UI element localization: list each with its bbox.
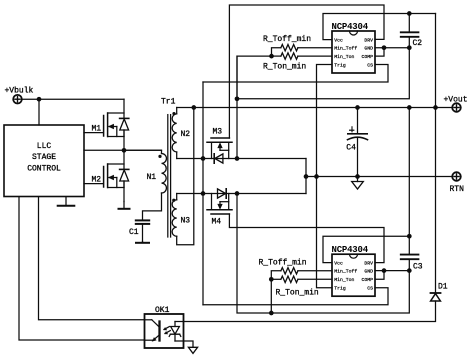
- transformer Tr1 core: [167, 115, 169, 237]
- node upper R junction: [269, 54, 274, 59]
- wire +Vbulk rail: [22, 98, 124, 100]
- node C4 bottom / RTN: [355, 174, 360, 179]
- svg-text:COMP: COMP: [361, 54, 373, 60]
- svg-text:STAGE: STAGE: [32, 153, 56, 162]
- svg-text:Tr1: Tr1: [161, 98, 176, 107]
- diode D1: [431, 293, 441, 301]
- capacitor C3: [401, 255, 419, 271]
- wire N3 bottom lead: [177, 108, 194, 245]
- svg-text:Trig: Trig: [334, 286, 346, 292]
- wire upper COMP to GND: [375, 48, 384, 56]
- ground (OK1): [188, 347, 197, 353]
- wire lower GND net: [375, 270, 409, 272]
- wire D1 to feedback line: [184, 301, 436, 322]
- svg-text:NCP4304: NCP4304: [332, 22, 369, 32]
- wire upper GND net: [375, 47, 409, 49]
- resistor R_Toff_min (lower): [271, 268, 332, 280]
- node C2 bottom / GND: [407, 45, 412, 50]
- ground (LLC box): [58, 197, 75, 206]
- op-amp U3 NCP4304 (lower): [332, 245, 376, 296]
- wire LLC emitter sense: [19, 197, 145, 340]
- wire RTN rail: [306, 176, 452, 178]
- node Vbulk junction: [37, 97, 42, 102]
- svg-text:M4: M4: [212, 218, 222, 227]
- wire N1 top lead: [124, 150, 162, 153]
- resistor R_Ton_min (lower): [271, 276, 332, 282]
- node Vcc rail / +Vout: [433, 105, 438, 110]
- wire upper Vcc rail: [323, 14, 436, 40]
- svg-text:M3: M3: [213, 128, 223, 137]
- wire upper CS loop: [203, 65, 388, 83]
- node lower COMP tie: [382, 268, 387, 273]
- node RTN left junction: [304, 174, 309, 179]
- svg-text:DRV: DRV: [364, 260, 373, 266]
- svg-text:N2: N2: [181, 130, 191, 139]
- svg-text:NCP4304: NCP4304: [332, 245, 369, 255]
- svg-text:Min_Toff: Min_Toff: [334, 46, 357, 52]
- svg-text:CS: CS: [367, 286, 373, 292]
- svg-text:GND: GND: [364, 269, 373, 275]
- svg-text:D1: D1: [438, 283, 448, 292]
- wire +Vout rail: [177, 107, 453, 109]
- wire N3 top lead: [176, 194, 178, 200]
- wire M4 row to RTN: [305, 177, 307, 194]
- resistor R_Toff_min (upper): [272, 45, 333, 57]
- svg-text:Min_Toff: Min_Toff: [334, 269, 357, 275]
- svg-text:Vcc: Vcc: [334, 37, 343, 43]
- svg-text:COMP: COMP: [361, 277, 373, 283]
- terminal +Vout: [444, 96, 468, 112]
- transistor M2: [84, 164, 129, 188]
- winding N3: [172, 199, 177, 237]
- wire lower CS loop: [203, 288, 388, 305]
- wire M4 row (N3 return): [177, 193, 306, 195]
- node M4 source: [235, 191, 240, 196]
- ground (M2 source): [119, 202, 130, 209]
- svg-text:GND: GND: [364, 46, 373, 52]
- wire LLC lower output: [39, 197, 145, 320]
- node upper COMP tie: [382, 45, 387, 50]
- wire Vbulk to LLC box: [38, 99, 40, 125]
- wire midpoint row: [84, 149, 162, 151]
- svg-text:R_Toff_min: R_Toff_min: [263, 35, 311, 44]
- svg-text:Vcc: Vcc: [334, 260, 343, 266]
- node upper GND/M3 source: [235, 96, 240, 101]
- svg-text:R_Ton_min: R_Ton_min: [263, 63, 306, 72]
- wire lower COMP to GND: [375, 271, 384, 280]
- terminal +Vbulk: [5, 87, 34, 104]
- winding N1: [158, 154, 166, 194]
- wire +Vout to D1: [435, 108, 437, 294]
- terminal RTN: [450, 172, 465, 194]
- ground (RTN): [352, 177, 364, 190]
- svg-text:C2: C2: [413, 39, 423, 48]
- svg-text:Min_Ton: Min_Ton: [334, 54, 354, 60]
- svg-text:Min_Ton: Min_Ton: [334, 277, 354, 283]
- wire M1 source to midpoint: [123, 130, 125, 150]
- svg-text:C4: C4: [346, 144, 356, 153]
- ground (C1): [136, 242, 149, 243]
- node C3 bottom / GND: [407, 268, 412, 273]
- wire M4 gate to lower DRV: [229, 214, 384, 263]
- transistor M1: [84, 113, 129, 137]
- svg-text:LLC: LLC: [37, 142, 52, 151]
- svg-text:N3: N3: [181, 217, 191, 226]
- wire Vcc rail to +Vout: [435, 14, 437, 108]
- wire OK1 LED cathode to ground: [175, 341, 193, 347]
- node bridge midpoint: [122, 148, 127, 153]
- svg-text:CS: CS: [367, 62, 373, 68]
- wire M1 drain: [123, 99, 125, 118]
- svg-text:+Vbulk: +Vbulk: [5, 87, 34, 96]
- node C4 top: [355, 105, 360, 110]
- wire M3 row to RTN: [305, 159, 307, 177]
- wire M3/M4 drain sense bus: [202, 82, 204, 305]
- capacitor C1: [136, 220, 149, 241]
- wire +Vout to C3: [408, 108, 410, 255]
- svg-text:R_Ton_min: R_Ton_min: [276, 288, 319, 297]
- svg-text:C1: C1: [129, 228, 139, 237]
- svg-text:C3: C3: [413, 262, 423, 271]
- winding N2: [172, 112, 177, 152]
- LLC stage control block U2: [4, 125, 84, 197]
- capacitor C2: [401, 14, 419, 48]
- node center-tap on +Vout rail: [191, 105, 196, 110]
- svg-text:R_Toff_min: R_Toff_min: [259, 259, 307, 268]
- wire R junction to M3 source: [236, 56, 238, 158]
- svg-text:N1: N1: [147, 173, 157, 182]
- svg-text:RTN: RTN: [450, 185, 465, 194]
- node M3 source: [235, 156, 240, 161]
- wire N2 bottom lead: [176, 152, 178, 159]
- optocoupler OK1: [145, 314, 184, 348]
- wire upper GND to R junction: [237, 56, 272, 99]
- resistor R_Ton_min (upper): [272, 53, 333, 59]
- wire Trig bus: [317, 65, 333, 288]
- node C2 top: [407, 11, 412, 16]
- wire M2 source: [123, 181, 125, 202]
- wire M2 drain to midpoint: [123, 150, 125, 169]
- node M3 drain: [201, 156, 206, 161]
- node lower R junction / GND line: [269, 311, 274, 316]
- node Trig bus / RTN: [314, 174, 319, 179]
- node lower Vcc rail tap: [407, 234, 412, 239]
- wire N2 top lead: [176, 108, 178, 114]
- svg-text:Trig: Trig: [334, 62, 346, 68]
- wire lower Vcc rail: [323, 236, 409, 262]
- op-amp U1 NCP4304 (upper): [332, 22, 376, 73]
- transistor M4: [207, 189, 232, 214]
- svg-text:DRV: DRV: [364, 37, 373, 43]
- wire M3 row (N2 return): [177, 158, 306, 160]
- node lower R junction: [269, 277, 274, 282]
- node C3 feed on +Vout rail: [407, 105, 412, 110]
- wire lower R junction to GND line: [270, 279, 272, 313]
- svg-text:+Vout: +Vout: [444, 96, 468, 105]
- svg-text:CONTROL: CONTROL: [27, 165, 61, 174]
- wire upper DRV to M3 gate: [229, 5, 384, 138]
- wire N1 bottom lead: [143, 193, 162, 220]
- node M4 drain: [201, 191, 206, 196]
- transistor M3: [207, 138, 232, 163]
- capacitor C4: [348, 108, 368, 177]
